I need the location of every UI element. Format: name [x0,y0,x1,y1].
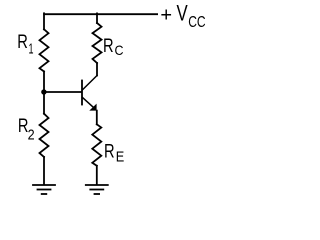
svg-text:R: R [104,142,115,163]
svg-text:R: R [103,36,114,57]
svg-text:V: V [177,1,188,26]
svg-text:CC: CC [188,14,205,31]
svg-text:2: 2 [28,127,35,144]
svg-text:+: + [160,4,172,26]
svg-text:R: R [17,32,28,53]
svg-text:E: E [116,150,125,166]
svg-text:C: C [115,42,124,58]
svg-text:1: 1 [29,41,34,58]
